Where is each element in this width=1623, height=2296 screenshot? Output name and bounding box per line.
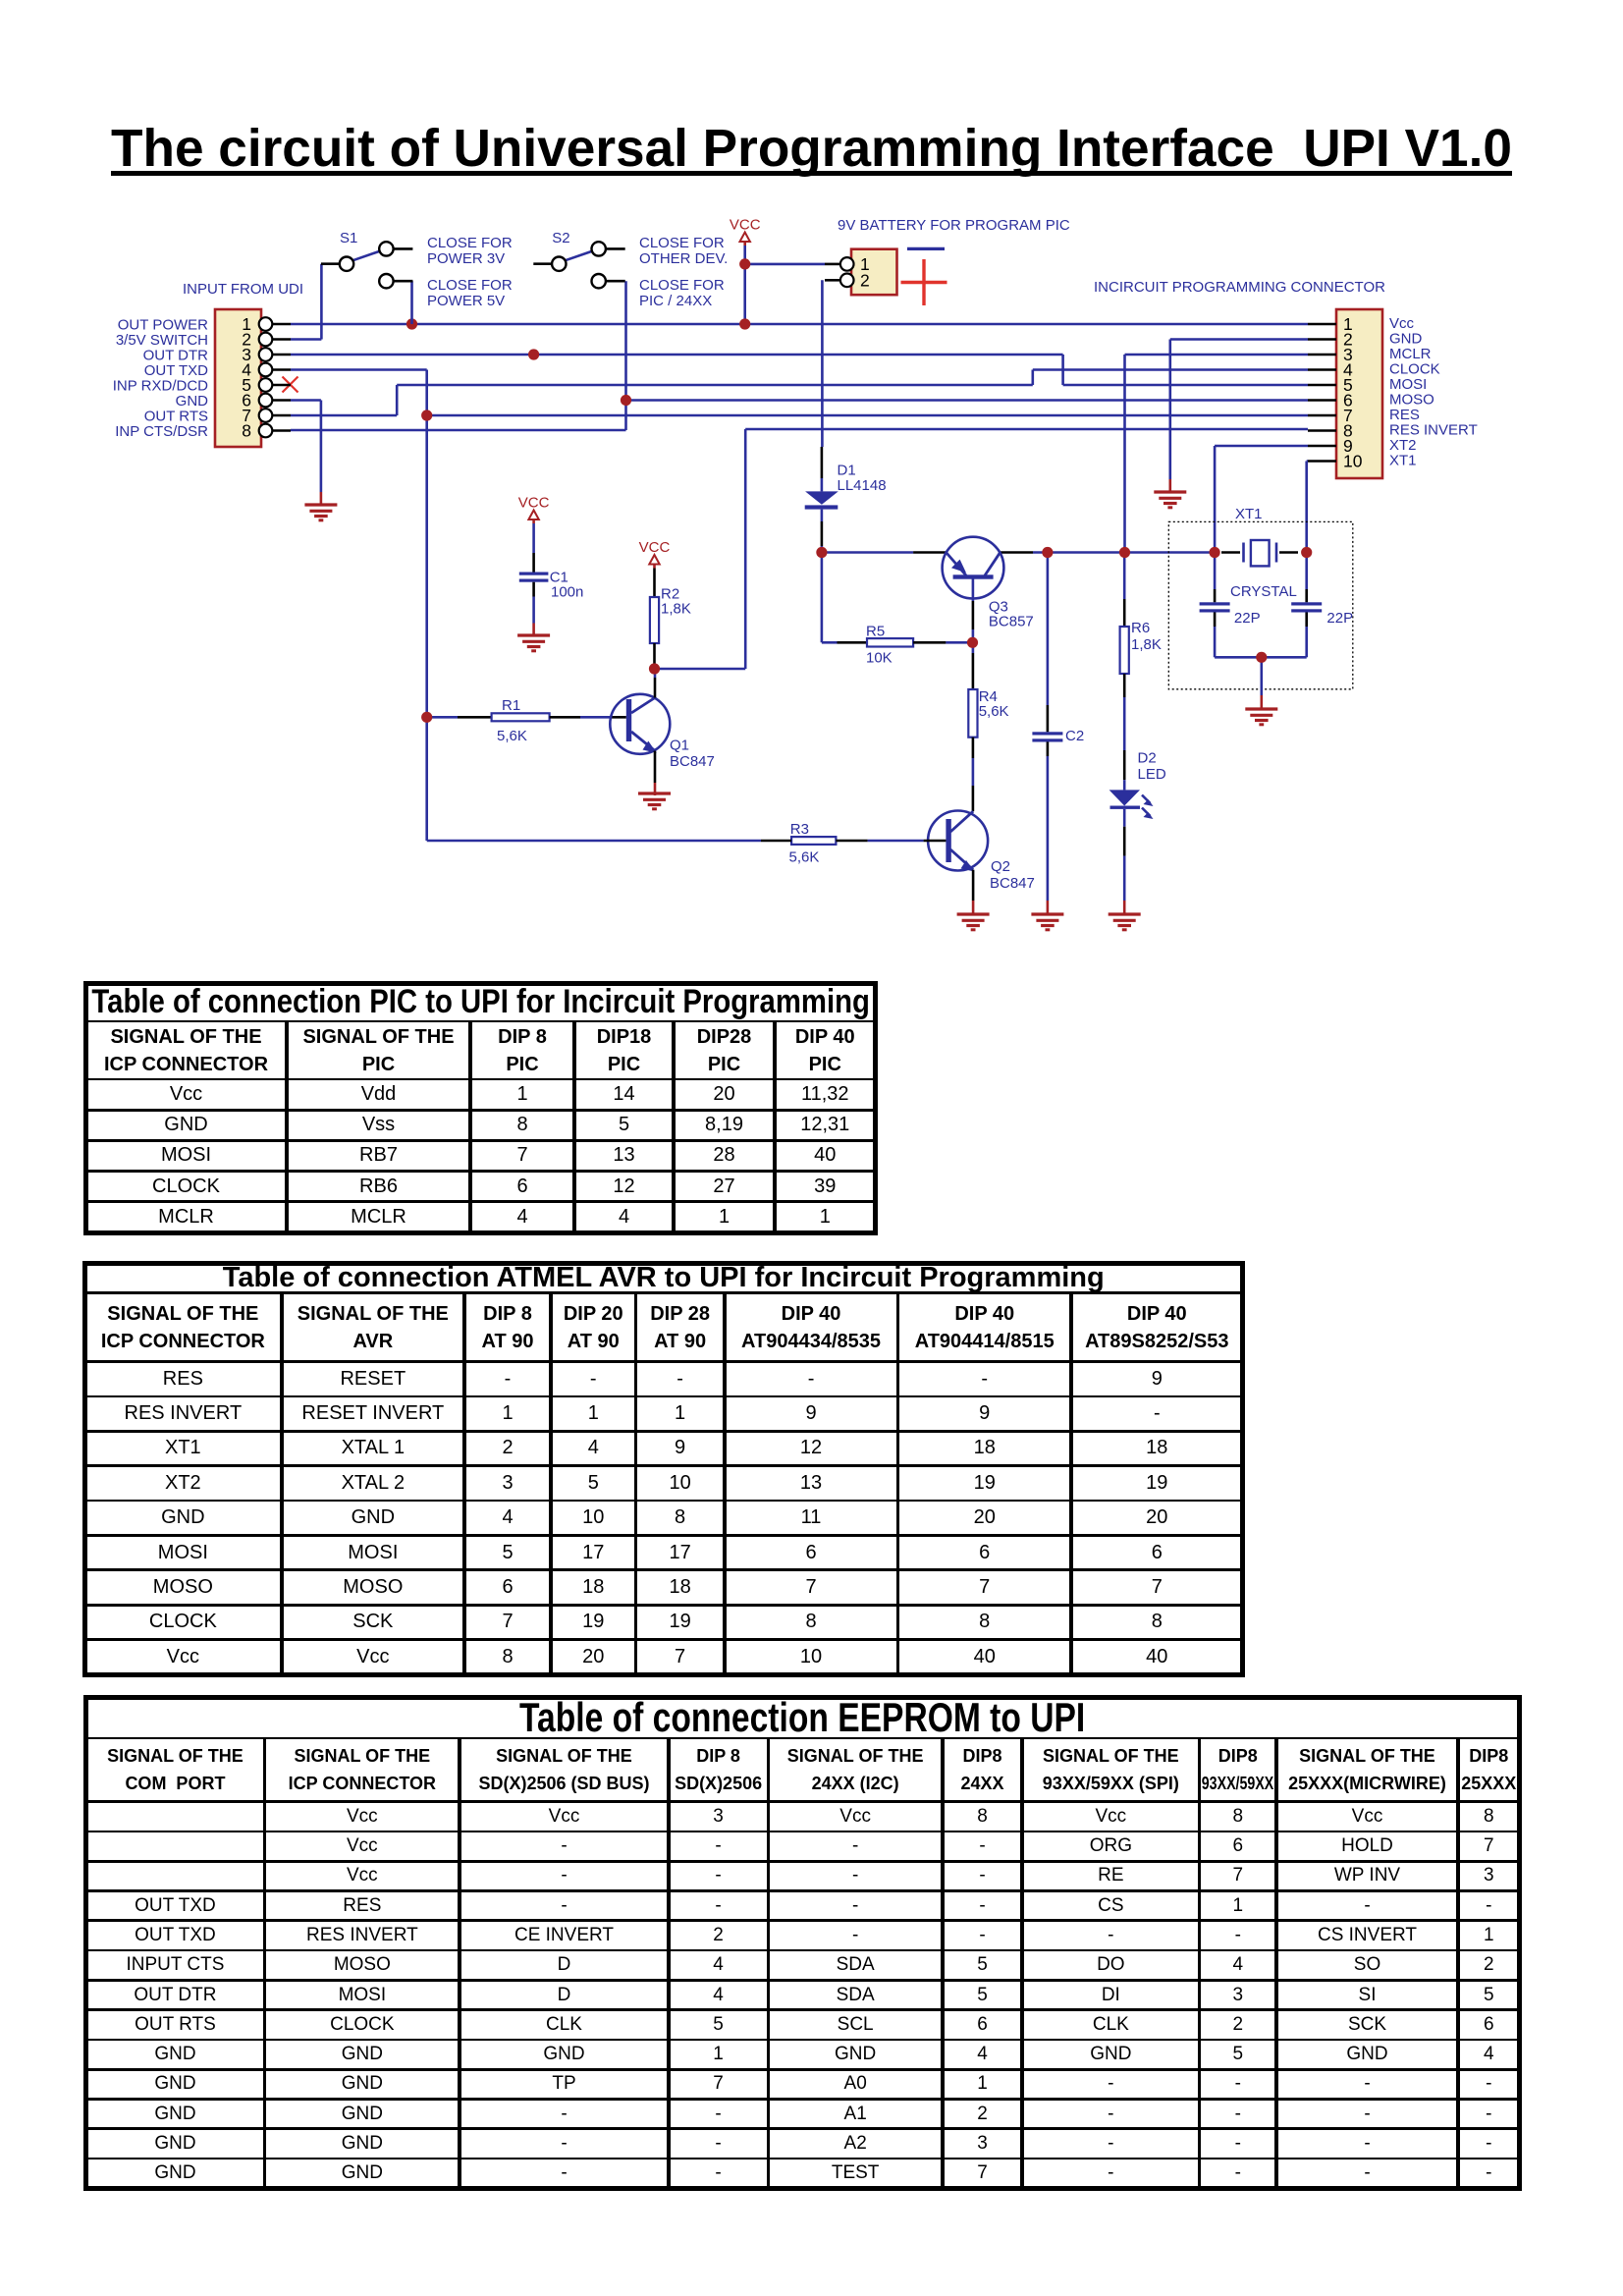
svg-text:3/5V SWITCH: 3/5V SWITCH — [116, 332, 208, 349]
svg-text:CRYSTAL: CRYSTAL — [1230, 583, 1297, 600]
svg-text:D2: D2 — [1138, 750, 1157, 767]
svg-text:22P: 22P — [1326, 610, 1353, 627]
svg-text:5,6K: 5,6K — [789, 849, 820, 866]
svg-text:INPUT FROM UDI: INPUT FROM UDI — [183, 281, 303, 298]
svg-text:BC847: BC847 — [670, 753, 715, 770]
svg-text:GND: GND — [1389, 331, 1423, 348]
svg-text:CLOCK: CLOCK — [1389, 361, 1440, 378]
svg-text:MOSI: MOSI — [1389, 376, 1427, 393]
svg-text:RES INVERT: RES INVERT — [1389, 422, 1478, 439]
svg-text:100n: 100n — [551, 584, 583, 601]
svg-text:10: 10 — [1343, 452, 1363, 471]
svg-text:OUT RTS: OUT RTS — [144, 409, 208, 425]
svg-text:2: 2 — [860, 271, 870, 291]
svg-text:LED: LED — [1138, 766, 1166, 783]
svg-text:D1: D1 — [838, 463, 856, 479]
svg-text:GND: GND — [176, 393, 209, 410]
svg-text:R5: R5 — [866, 624, 885, 640]
svg-text:CLOSE FOR: CLOSE FOR — [427, 277, 513, 294]
svg-text:OTHER DEV.: OTHER DEV. — [639, 250, 728, 267]
svg-text:INP RXD/DCD: INP RXD/DCD — [113, 378, 208, 395]
svg-text:PIC / 24XX: PIC / 24XX — [639, 293, 712, 309]
svg-text:OUT POWER: OUT POWER — [118, 317, 208, 334]
svg-text:MOSO: MOSO — [1389, 392, 1434, 409]
svg-text:VCC: VCC — [518, 495, 550, 512]
svg-text:VCC: VCC — [730, 217, 761, 234]
svg-text:LL4148: LL4148 — [838, 477, 887, 494]
svg-text:R3: R3 — [790, 821, 809, 838]
svg-text:CLOSE FOR: CLOSE FOR — [639, 235, 725, 251]
svg-text:S1: S1 — [340, 230, 357, 246]
svg-text:BC857: BC857 — [989, 614, 1034, 630]
svg-text:XT2: XT2 — [1389, 437, 1417, 454]
svg-text:MCLR: MCLR — [1389, 346, 1432, 362]
svg-text:R6: R6 — [1131, 620, 1150, 636]
svg-text:Q2: Q2 — [991, 858, 1010, 875]
svg-text:1,8K: 1,8K — [1131, 636, 1162, 653]
svg-text:XT1: XT1 — [1389, 453, 1417, 469]
svg-text:VCC: VCC — [639, 539, 671, 556]
svg-text:C2: C2 — [1065, 728, 1084, 744]
svg-text:CLOSE FOR: CLOSE FOR — [427, 235, 513, 251]
svg-text:CLOSE FOR: CLOSE FOR — [639, 277, 725, 294]
svg-text:OUT DTR: OUT DTR — [143, 348, 209, 364]
svg-text:8: 8 — [242, 421, 251, 441]
svg-text:POWER 5V: POWER 5V — [427, 293, 505, 309]
svg-text:INP CTS/DSR: INP CTS/DSR — [115, 423, 208, 440]
svg-text:10K: 10K — [866, 650, 893, 667]
svg-text:R1: R1 — [502, 697, 520, 714]
svg-text:BC847: BC847 — [990, 875, 1035, 892]
svg-text:Vcc: Vcc — [1389, 315, 1415, 332]
svg-text:POWER 3V: POWER 3V — [427, 250, 505, 267]
svg-text:OUT TXD: OUT TXD — [144, 362, 208, 379]
svg-text:1,8K: 1,8K — [661, 601, 691, 618]
svg-text:XT1: XT1 — [1235, 506, 1263, 522]
svg-text:22P: 22P — [1234, 610, 1261, 627]
svg-text:9V BATTERY FOR PROGRAM PIC: 9V BATTERY FOR PROGRAM PIC — [838, 217, 1070, 234]
svg-text:S2: S2 — [552, 230, 569, 246]
svg-text:Q1: Q1 — [670, 738, 689, 754]
svg-text:INCIRCUIT PROGRAMMING CONNECTO: INCIRCUIT PROGRAMMING CONNECTOR — [1094, 279, 1385, 296]
svg-text:5,6K: 5,6K — [979, 703, 1009, 720]
svg-text:RES: RES — [1389, 407, 1420, 423]
svg-text:5,6K: 5,6K — [497, 728, 527, 744]
